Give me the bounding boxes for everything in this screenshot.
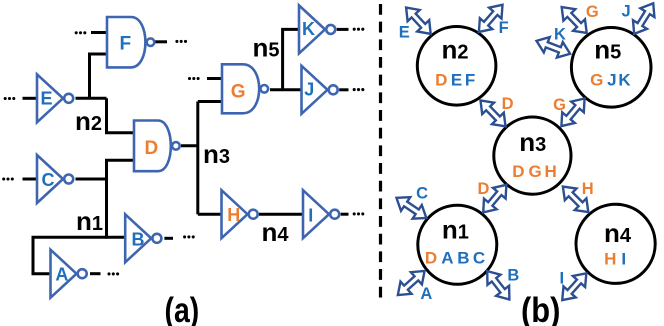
svg-text:K: K (302, 19, 315, 39)
svg-text:A: A (55, 265, 68, 285)
svg-text:A: A (420, 285, 432, 303)
svg-text:J: J (304, 79, 314, 99)
svg-text:D: D (145, 138, 159, 159)
svg-text:D: D (512, 162, 524, 181)
svg-text:G: G (528, 162, 541, 181)
svg-text:D: D (502, 95, 514, 113)
svg-text:F: F (120, 33, 132, 54)
svg-text:E: E (399, 24, 410, 42)
svg-text:H: H (227, 205, 240, 225)
svg-text:H: H (545, 162, 557, 181)
svg-text:I: I (560, 269, 565, 287)
svg-text:D: D (435, 71, 447, 90)
svg-text:G: G (590, 70, 603, 89)
svg-text:E: E (41, 89, 53, 109)
svg-text:H: H (582, 180, 594, 198)
svg-text:K: K (554, 26, 566, 44)
svg-text:F: F (465, 71, 475, 90)
svg-text:J: J (622, 3, 631, 21)
svg-text:B: B (507, 267, 519, 285)
svg-text:H: H (604, 250, 616, 269)
svg-text:B: B (457, 249, 469, 268)
svg-text:D: D (477, 180, 489, 198)
svg-text:C: C (42, 170, 55, 190)
svg-text:G: G (586, 3, 599, 21)
svg-text:J: J (607, 70, 616, 89)
svg-text:C: C (416, 185, 428, 203)
svg-text:I: I (308, 206, 313, 226)
svg-text:F: F (499, 19, 509, 37)
svg-text:D: D (425, 249, 437, 268)
svg-text:A: A (441, 249, 453, 268)
svg-text:E: E (451, 71, 462, 90)
svg-text:C: C (473, 249, 485, 268)
svg-text:(a): (a) (165, 290, 200, 326)
svg-text:K: K (618, 70, 631, 89)
svg-text:G: G (553, 96, 566, 114)
svg-text:B: B (132, 230, 145, 250)
svg-text:G: G (231, 82, 246, 103)
svg-text:I: I (621, 250, 626, 269)
svg-text:(b): (b) (521, 291, 560, 326)
